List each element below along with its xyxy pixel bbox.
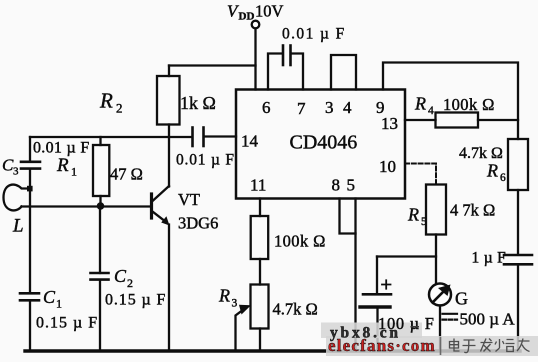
wire left vertical C3 branch: [29, 137, 31, 161]
wire ground rail bottom: [25, 349, 520, 352]
svg-text:L: L: [12, 216, 24, 237]
svg-text:C: C: [114, 266, 127, 286]
wire C2 bottom lead: [99, 280, 101, 350]
svg-text:3: 3: [232, 298, 238, 310]
svg-text:1: 1: [71, 165, 77, 179]
svg-text:2: 2: [116, 101, 123, 116]
node A junction dot C3/L: [27, 186, 33, 192]
resistor R3 potentiometer: [251, 285, 269, 329]
svg-text:R: R: [56, 155, 69, 176]
wire R3 bottom lead: [259, 329, 261, 351]
svg-text:DD: DD: [239, 11, 255, 23]
svg-text:10: 10: [379, 157, 396, 176]
svg-text:R: R: [407, 205, 419, 225]
svg-text:3: 3: [325, 98, 334, 117]
wire C1 bottom lead: [29, 300, 31, 350]
svg-text:4 7k Ω: 4 7k Ω: [450, 201, 495, 220]
resistor R5: [426, 185, 446, 235]
svg-text:2: 2: [127, 276, 133, 290]
svg-text:5: 5: [421, 216, 427, 228]
wire coupling cap to pin 14: [204, 135, 236, 137]
svg-text:4: 4: [428, 105, 434, 117]
glyph you: [517, 339, 530, 352]
wire R5 bottom to meter: [435, 235, 437, 284]
wire meter bottom: [439, 306, 441, 351]
resistor R4: [436, 113, 479, 128]
svg-text:0.01 µ F: 0.01 µ F: [176, 152, 235, 169]
svg-text:100k Ω: 100k Ω: [274, 232, 326, 251]
wire L bottom to VT base: [22, 205, 151, 207]
glyph dian: [450, 339, 460, 352]
resistor R6: [508, 139, 528, 190]
capacitor C2: [91, 272, 109, 275]
svg-text:G: G: [455, 289, 468, 309]
svg-text:4.7k Ω: 4.7k Ω: [459, 145, 503, 162]
svg-text:R: R: [486, 161, 498, 181]
svg-text:100k Ω: 100k Ω: [443, 95, 495, 114]
wire pin9 riser and top-right run: [383, 63, 518, 140]
svg-text:R: R: [218, 286, 230, 306]
svg-text:13: 13: [381, 114, 398, 133]
svg-text:0.15 µ F: 0.15 µ F: [105, 292, 166, 309]
svg-text:11: 11: [250, 176, 266, 195]
meter G circle: [429, 284, 451, 306]
watermark tm dash: [411, 326, 420, 328]
node B junction dot R1/C2/base: [97, 202, 105, 210]
wire pin11 lead: [259, 199, 261, 217]
svg-text:14: 14: [241, 132, 259, 151]
svg-text:VT: VT: [178, 190, 200, 209]
svg-text:1k Ω: 1k Ω: [180, 93, 216, 113]
svg-text:500 µ A: 500 µ A: [460, 310, 516, 329]
svg-text:6: 6: [500, 172, 506, 184]
wire top-left horizontal (C3 top to coupling cap): [30, 136, 191, 138]
svg-text:10V: 10V: [255, 2, 284, 21]
svg-text:0.01 µ F: 0.01 µ F: [282, 26, 346, 43]
watermark chinese text: [450, 339, 530, 353]
capacitor C1: [20, 292, 39, 295]
wire pin10 dashed link: [405, 164, 436, 185]
svg-text:4.7k Ω: 4.7k Ω: [273, 300, 318, 319]
svg-text:6: 6: [262, 98, 271, 117]
wire pin5 drop: [354, 199, 356, 351]
transistor VT collector: [153, 186, 170, 201]
capacitor coupling 0.01uF to pin14: [191, 128, 194, 147]
glyph zi: [463, 340, 476, 353]
wire VDD vertical: [254, 29, 256, 90]
capacitor 100uF polarized: [363, 293, 391, 296]
transistor VT emitter with arrow: [153, 212, 167, 223]
wire pin6 bypass leg: [268, 54, 282, 90]
svg-text:0.01 µ F: 0.01 µ F: [33, 140, 90, 157]
wire R4 right lead: [478, 119, 518, 121]
capacitor 1uF: [504, 254, 532, 257]
glyph fa: [481, 339, 493, 352]
svg-text:4: 4: [343, 98, 352, 117]
capacitor C3: [21, 161, 40, 164]
wire R2 bottom lead to collector junction: [168, 125, 170, 138]
svg-text:C: C: [43, 287, 56, 307]
svg-text:3DG6: 3DG6: [178, 214, 218, 233]
svg-text:7: 7: [297, 99, 306, 118]
wire C3 bottom to C1 top: [29, 169, 31, 292]
wire R3 wiper drop: [236, 310, 244, 350]
resistor R2: [157, 76, 180, 125]
wire VDD branch: [169, 64, 256, 66]
glyph shao: [495, 339, 515, 352]
inductor L pickup coil: [4, 185, 31, 211]
wire R1 bottom lead: [99, 196, 101, 207]
wire 1uF bottom lead: [517, 264, 519, 351]
wire 100uF bottom lead: [376, 309, 378, 351]
DC symbol: [443, 313, 458, 315]
watermark backgrounds: [321, 323, 422, 339]
svg-text:elecfans·com: elecfans·com: [328, 336, 436, 355]
wire R6 bottom lead: [517, 190, 519, 255]
transistor VT base bar: [150, 194, 153, 218]
wire pin8 link: [340, 199, 356, 234]
resistor R1: [93, 145, 109, 196]
wire emitter drop: [168, 225, 170, 351]
wire pin7 bypass leg: [292, 54, 304, 90]
wire 100k to R3: [259, 259, 261, 285]
wire pin13 to R4: [405, 119, 436, 121]
svg-text:3: 3: [13, 166, 19, 178]
svg-text:1 µ F: 1 µ F: [472, 250, 507, 267]
svg-text:1: 1: [56, 297, 62, 311]
wire collector riser: [168, 137, 170, 187]
svg-text:5: 5: [347, 176, 356, 195]
wire pins 3-4 bridge: [331, 55, 356, 90]
IC U1 CD4046 box: [236, 90, 405, 199]
capacitor bypass 0.01uF: [282, 46, 285, 66]
wire C2 top lead: [99, 207, 101, 274]
svg-text:CD4046: CD4046: [290, 132, 358, 154]
wire R2 top lead: [168, 66, 170, 77]
svg-text:R: R: [99, 89, 113, 113]
svg-text:0.15 µ F: 0.15 µ F: [36, 315, 98, 332]
resistor 100k (pin11): [251, 216, 269, 259]
watermark divider: [440, 337, 442, 355]
svg-text:8: 8: [332, 176, 341, 195]
terminal VDD circle: [252, 21, 260, 29]
wire 100uF top lead: [376, 257, 378, 294]
svg-text:R: R: [414, 94, 426, 114]
svg-text:47 Ω: 47 Ω: [110, 165, 143, 184]
wire to 100uF cap: [377, 255, 436, 257]
meter G needle: [433, 291, 445, 303]
plus sign 100uF: [382, 280, 391, 288]
wire R1 top lead: [99, 137, 101, 145]
